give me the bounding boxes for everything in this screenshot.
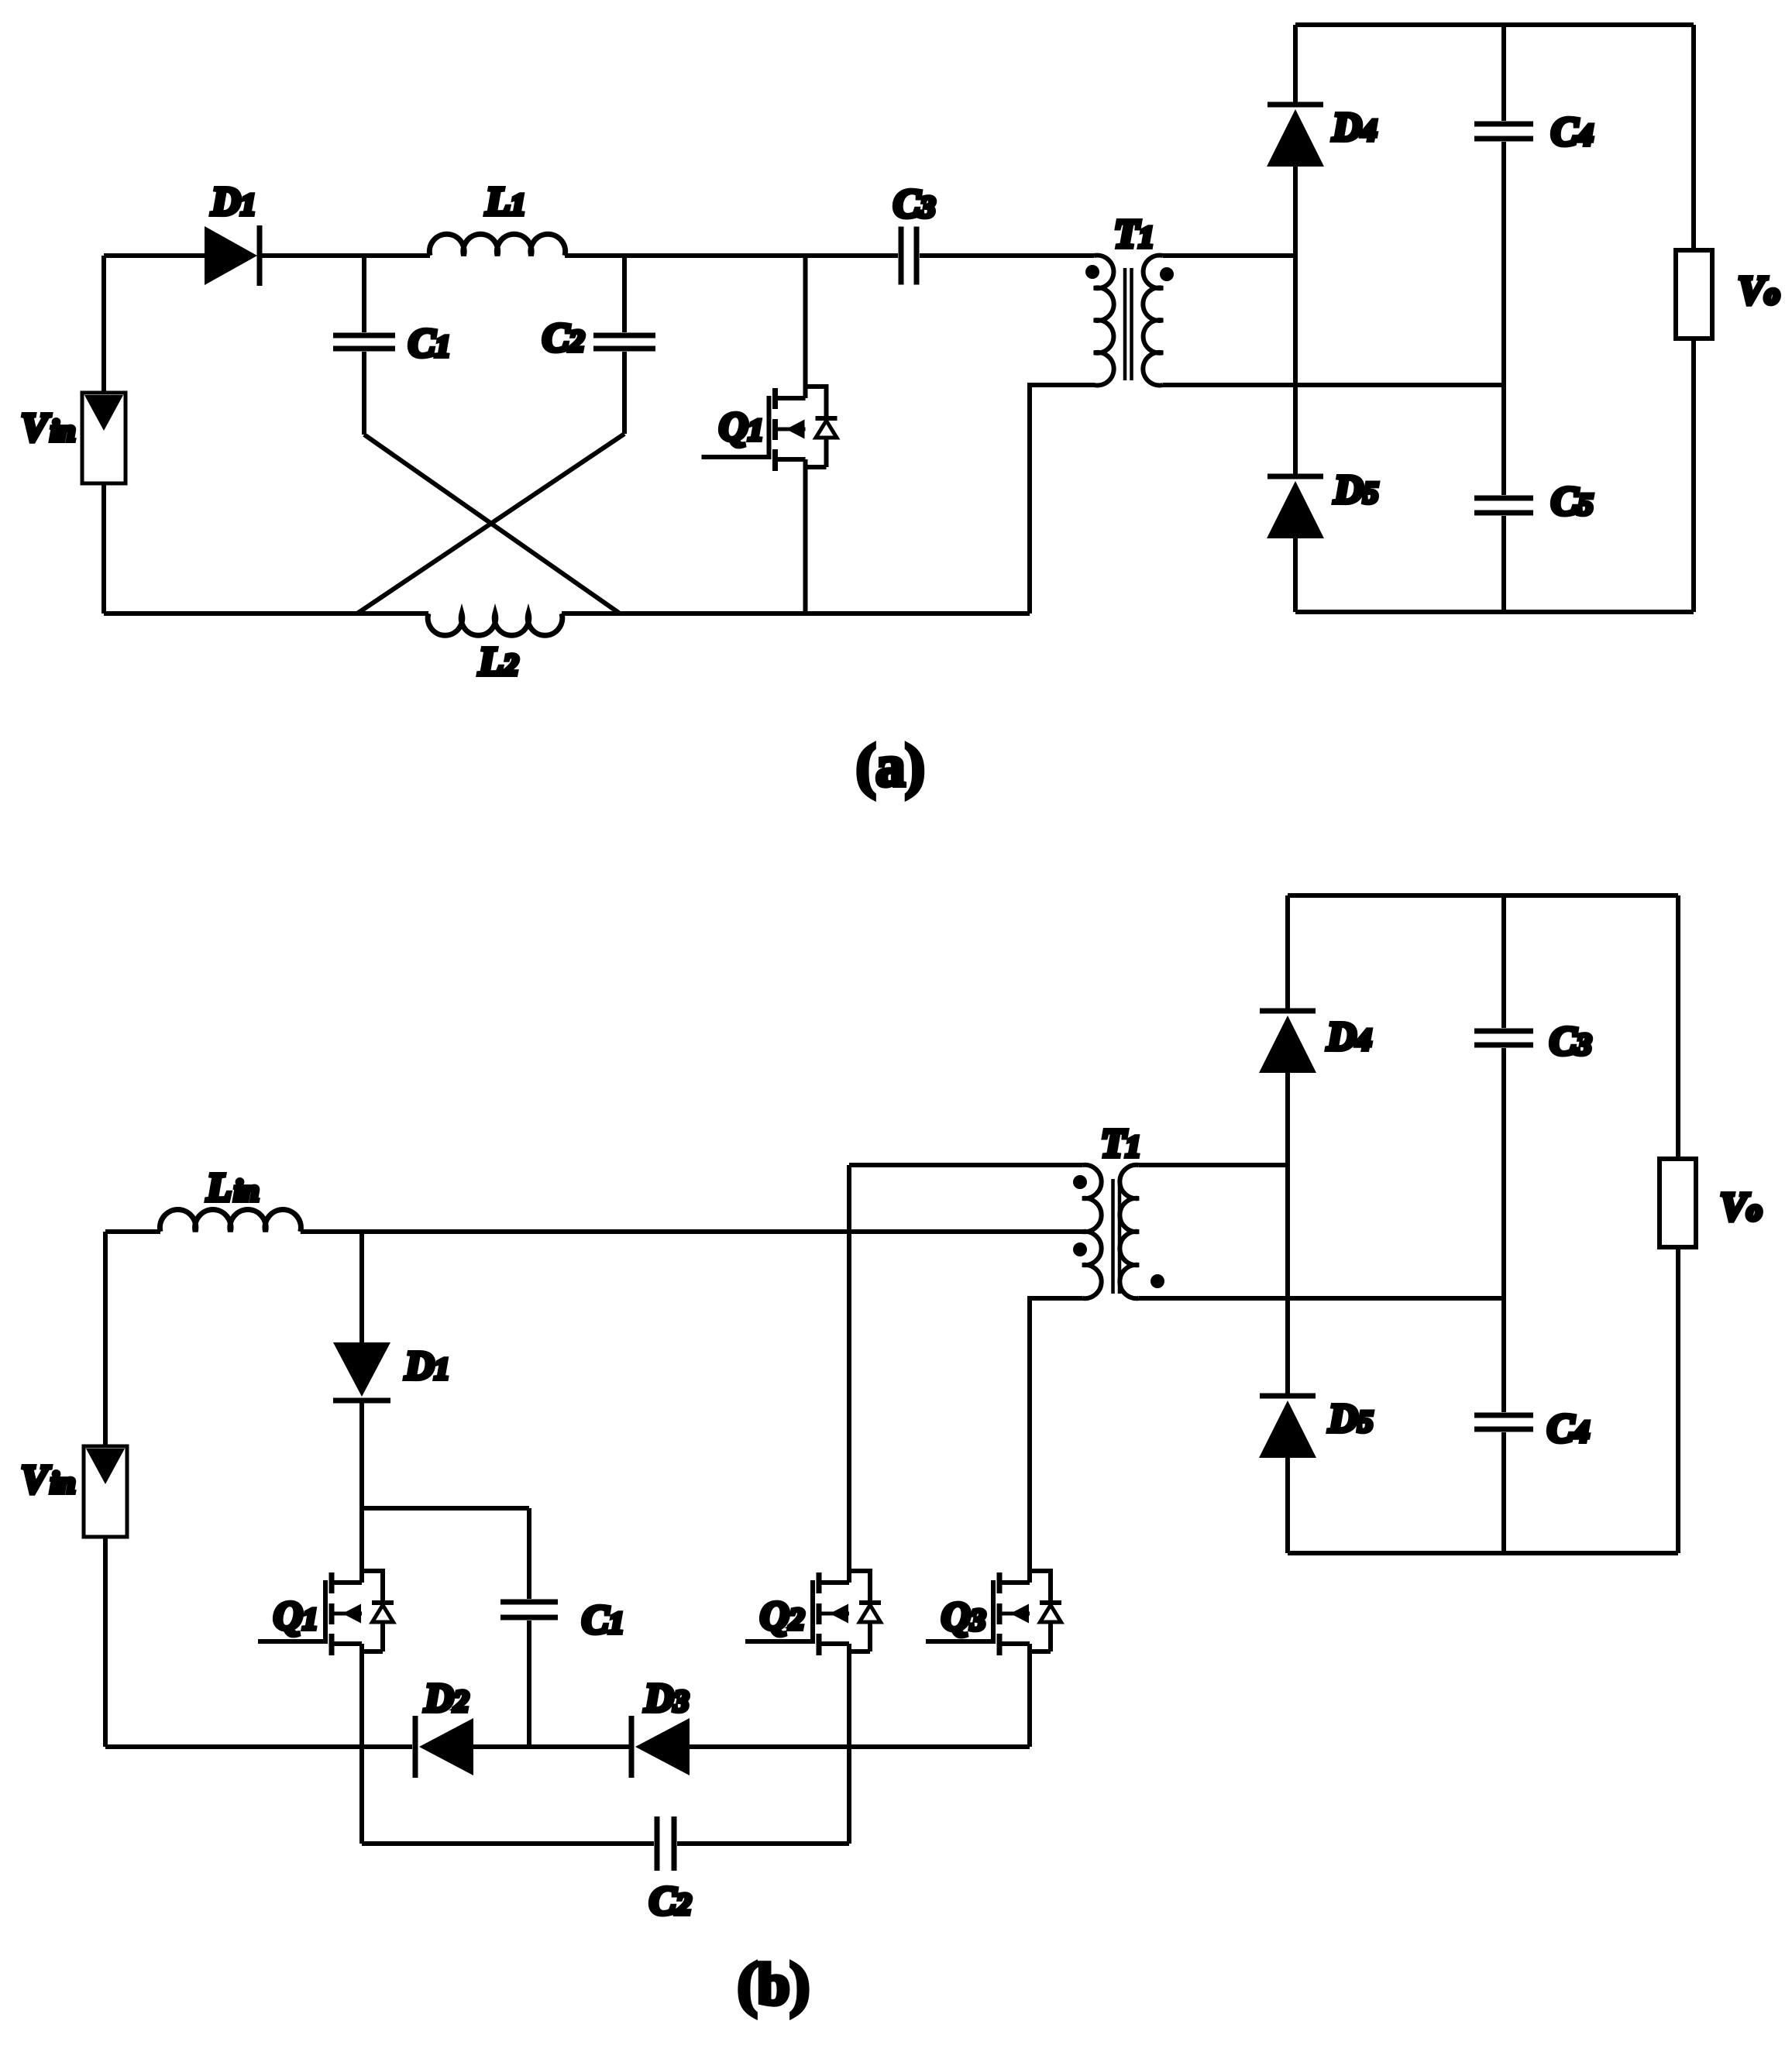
svg-text:Vin: Vin [21,406,75,450]
wire top rail D1 to L1 [260,253,430,258]
wire bottom rail segment 1 [105,1744,412,1749]
svg-text:Vo: Vo [1738,269,1780,313]
capacitor C2 [657,1816,674,1871]
capacitor C2 [593,256,655,434]
diode D1 [333,1342,390,1401]
wire secondary bottom to C4 branch [1163,383,1504,387]
capacitor C5 [1474,498,1533,513]
wire D5 to bottom rail [1293,538,1298,612]
wire Vo branch top [1691,25,1696,250]
wire D5 to bottom rail [1285,1458,1290,1553]
wire top rail L1 to C3 [565,253,898,258]
wire C4-C5 branch top [1501,25,1506,121]
transistor Q3 [926,1571,1061,1655]
svg-text:C2: C2 [649,1879,691,1923]
svg-text:D4: D4 [1326,1015,1371,1059]
wire rectifier bottom rail [1288,1551,1678,1555]
svg-text:C1: C1 [408,321,450,366]
transistor Q1 [702,387,838,471]
svg-text:(a): (a) [856,734,925,799]
svg-text:L2: L2 [478,640,518,684]
source Vin [84,1446,127,1537]
svg-text:D3: D3 [644,1676,689,1720]
svg-text:Q3: Q3 [941,1595,985,1639]
wire C2 line left [362,1841,654,1846]
wire Q2 drain branch [847,1165,851,1583]
diode D1 [205,225,260,286]
capacitor C3 [901,227,917,285]
svg-text:C5: C5 [1551,479,1593,524]
wire bottom rail left [104,611,428,616]
svg-text:D1: D1 [211,180,256,224]
transformer T1 primary winding upper [1082,1165,1102,1232]
wire diagonal C2 to bottom [357,434,624,613]
source Vin [82,393,126,483]
node secondary dot [1151,1274,1164,1288]
wire D4-D5 branch middle [1293,167,1298,474]
wire C5 to bottom rail [1501,516,1506,612]
wire bottom rail right [562,611,1030,616]
capacitor C4 [1474,1415,1533,1429]
wire Q2 drain top to transformer [849,1163,1082,1167]
svg-text:L1: L1 [485,180,525,224]
wire Q3 drain branch [1030,1298,1082,1583]
diode D2 [415,1716,473,1778]
wire C4 to bottom rail [1501,1432,1506,1553]
wire rectifier top rail [1295,22,1694,27]
wire C2 line right [677,1841,849,1846]
inductor Lin [160,1210,301,1232]
wire C3 to C4 [1501,1048,1506,1412]
svg-text:D5: D5 [1333,468,1378,512]
wire D4-D5 branch upper [1293,25,1298,102]
wire diagonal C1 to bottom [364,435,620,613]
wire C4 to C5 [1501,142,1506,495]
svg-text:C1: C1 [582,1598,624,1642]
svg-text:Q1: Q1 [273,1594,318,1638]
transistor Q2 [745,1571,881,1655]
svg-text:D1: D1 [404,1344,449,1388]
wire D1 anode branch [359,1232,364,1342]
svg-text:C2: C2 [542,316,584,360]
capacitor C1 [500,1508,558,1747]
transformer T1 primary winding lower [1082,1232,1102,1298]
wire D1 cathode to Q1 drain [359,1403,364,1583]
svg-text:C4: C4 [1547,1407,1589,1451]
diode D5 [1259,1396,1316,1458]
wire Q2 source down to C2 line [847,1644,851,1844]
svg-text:Lin: Lin [206,1166,259,1210]
wire top rail left segment [105,1229,160,1234]
transistor Q1 [258,1571,394,1655]
wire Vo branch bottom [1676,1247,1680,1553]
node secondary dot [1160,267,1174,281]
transformer T1 secondary winding [1120,1165,1139,1298]
wire C3-C4 branch top [1501,895,1506,1028]
wire top rail to transformer [301,1229,1082,1234]
wire secondary top to D4 branch [1139,1163,1288,1167]
svg-text:Q1: Q1 [719,405,763,449]
transformer T1 secondary winding [1143,256,1163,386]
svg-text:Q2: Q2 [760,1594,804,1638]
svg-text:C3: C3 [893,182,935,226]
wire D4-D5 branch middle [1285,1073,1290,1394]
inductor L1 [429,234,565,256]
wire left branch with Vin [103,1232,108,1747]
wire rectifier top rail [1288,893,1678,898]
capacitor C3 [1474,1031,1533,1045]
svg-text:T1: T1 [1101,1122,1140,1166]
wire secondary top to D4 branch [1163,253,1295,258]
wire bottom rail segment 3 [690,1744,1030,1749]
diode D4 [1267,105,1324,167]
svg-text:C3: C3 [1550,1019,1591,1064]
wire top rail left segment [104,253,205,258]
node primary dot upper [1073,1175,1087,1189]
node primary dot lower [1073,1242,1087,1256]
wire left branch with Vin [101,256,106,613]
diode D3 [631,1716,690,1778]
svg-text:D5: D5 [1328,1397,1373,1441]
wire C1 top tee [362,1506,529,1511]
svg-text:Vo: Vo [1720,1185,1762,1229]
inductor L2 [428,613,562,635]
wire Q1 drain [803,256,808,398]
wire Q3 source to bottom rail [1027,1644,1032,1747]
diode D4 [1259,1011,1316,1073]
svg-text:C4: C4 [1551,110,1593,154]
wire rectifier bottom rail [1295,610,1694,614]
wire secondary bottom to C4 branch [1139,1296,1504,1301]
transformer T1 core [1125,268,1132,380]
transformer T1 core [1113,1179,1120,1294]
svg-text:D2: D2 [424,1676,469,1720]
wire top rail C3 to T1 [920,253,1094,258]
svg-text:(b): (b) [738,1952,810,2017]
svg-text:T1: T1 [1114,212,1154,256]
wire Q1 source [803,459,808,613]
node primary dot [1085,265,1099,279]
capacitor C1 [333,256,395,435]
wire Vo branch top [1676,895,1680,1159]
wire bottom rail segment 2 [473,1744,629,1749]
capacitor C4 [1474,124,1533,139]
svg-text:Vin: Vin [21,1458,75,1502]
wire Q1 source down to C2 line [359,1644,364,1844]
wire Vo branch bottom [1691,339,1696,612]
wire D4-D5 branch upper [1285,895,1290,1009]
load Vo [1660,1159,1696,1247]
load Vo [1676,250,1712,339]
diode D5 [1267,476,1324,538]
svg-text:D4: D4 [1332,105,1377,150]
transformer T1 primary winding [1030,256,1114,613]
